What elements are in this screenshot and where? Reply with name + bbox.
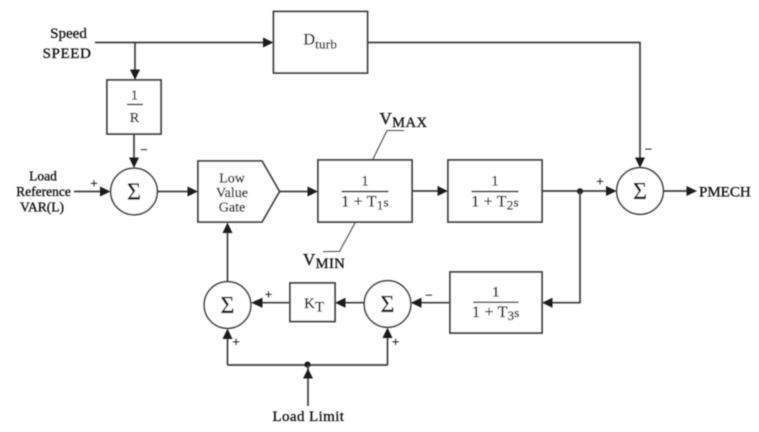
svg-text:Σ: Σ [221, 293, 235, 319]
wire load limit rail [228, 364, 388, 366]
block 1/R [107, 80, 161, 134]
svg-text:−: − [425, 288, 432, 303]
wire S4 up to gate bottom [227, 233, 229, 282]
block T3 1/(1+T3s) [450, 272, 542, 333]
arrowhead into T1 [308, 187, 319, 197]
block T1 1/(1+T1s) [318, 160, 412, 222]
arrowhead into gate left [188, 187, 199, 197]
wire feedback from junction down to T3 [550, 191, 580, 303]
arrowhead into S2 top [635, 158, 645, 169]
block KT [290, 283, 335, 322]
wire KT to summer S4 [260, 302, 290, 304]
arrowhead into S3 right [411, 298, 422, 308]
svg-text:R: R [130, 111, 140, 126]
arrowhead into T3 right [542, 298, 553, 308]
svg-text:+: + [265, 287, 272, 302]
wire 1/R to summer S1 [133, 134, 135, 160]
wire speed branch down to 1/R [134, 43, 136, 73]
wire T3 to summer S3 [419, 302, 450, 304]
svg-text:Σ: Σ [127, 180, 141, 206]
svg-text:Reference: Reference [16, 184, 71, 199]
summer S3 [364, 281, 411, 328]
leader line VMAX to T1 top [373, 131, 405, 161]
svg-text:Speed: Speed [50, 26, 87, 42]
arrowhead into gate bottom [223, 223, 233, 234]
summer S4 [204, 282, 251, 329]
svg-text:1: 1 [131, 89, 138, 104]
summer S1 [111, 168, 158, 215]
svg-text:VMAX: VMAX [380, 109, 428, 131]
junction dot on T2 output [577, 188, 583, 194]
svg-text:Low: Low [219, 172, 246, 187]
arrowhead PMECH output [687, 186, 698, 196]
svg-text:VMIN: VMIN [303, 250, 345, 272]
wire S1 to low value gate [157, 191, 190, 193]
svg-text:Σ: Σ [381, 292, 395, 318]
svg-text:Load Limit: Load Limit [272, 409, 344, 425]
block Low Value Gate [198, 161, 280, 222]
svg-text:1: 1 [491, 174, 499, 190]
arrowhead into S2 left [606, 186, 617, 196]
wire Dturb output to S2 top [368, 43, 641, 161]
svg-text:Gate: Gate [219, 201, 245, 216]
svg-text:1: 1 [492, 285, 500, 301]
svg-text:+: + [90, 176, 97, 191]
arrowhead into KT right [335, 298, 346, 308]
wire T2 to summer S2 [542, 190, 608, 192]
wire load limit stem [307, 365, 309, 406]
wire rail right riser to S3 [387, 338, 389, 365]
svg-text:PMECH: PMECH [699, 185, 751, 201]
arrowhead into 1/R block [130, 70, 140, 81]
svg-text:VAR(L): VAR(L) [20, 200, 64, 215]
svg-text:+: + [232, 334, 239, 349]
arrowhead into S1 top [129, 158, 139, 169]
svg-text:+: + [596, 174, 603, 189]
arrowhead load limit up [303, 369, 313, 379]
block Dturb [274, 12, 368, 74]
wire gate to T1 block [280, 191, 311, 193]
svg-text:SPEED: SPEED [43, 46, 92, 62]
summer S2 [617, 168, 664, 215]
svg-text:1: 1 [361, 174, 369, 190]
block T2 1/(1+T2s) [448, 160, 542, 222]
svg-text:Value: Value [216, 186, 248, 201]
arrowhead into S1 left [100, 187, 111, 197]
wire rail left riser to S4 [227, 339, 229, 365]
arrowhead into S3 bottom [383, 328, 393, 339]
svg-text:−: − [645, 142, 652, 157]
wire S3 to KT block [343, 302, 364, 304]
arrowhead into T2 [438, 186, 449, 196]
svg-text:+: + [392, 334, 399, 349]
leader line VMIN to T1 bottom [323, 222, 356, 252]
svg-text:Load: Load [29, 169, 57, 184]
arrowhead into Dturb [263, 38, 274, 48]
arrowhead into S4 bottom [223, 329, 233, 340]
junction dot on load limit rail [304, 362, 310, 368]
wire load reference input [74, 191, 102, 193]
arrowhead into S4 right [251, 298, 263, 308]
label Load Reference VAR(L) [16, 169, 71, 215]
svg-text:−: − [140, 142, 147, 157]
svg-text:Σ: Σ [633, 179, 647, 205]
wire speed input horizontal [95, 42, 266, 44]
wire T1 to T2 [412, 190, 440, 192]
wire S2 to PMECH [663, 190, 687, 192]
